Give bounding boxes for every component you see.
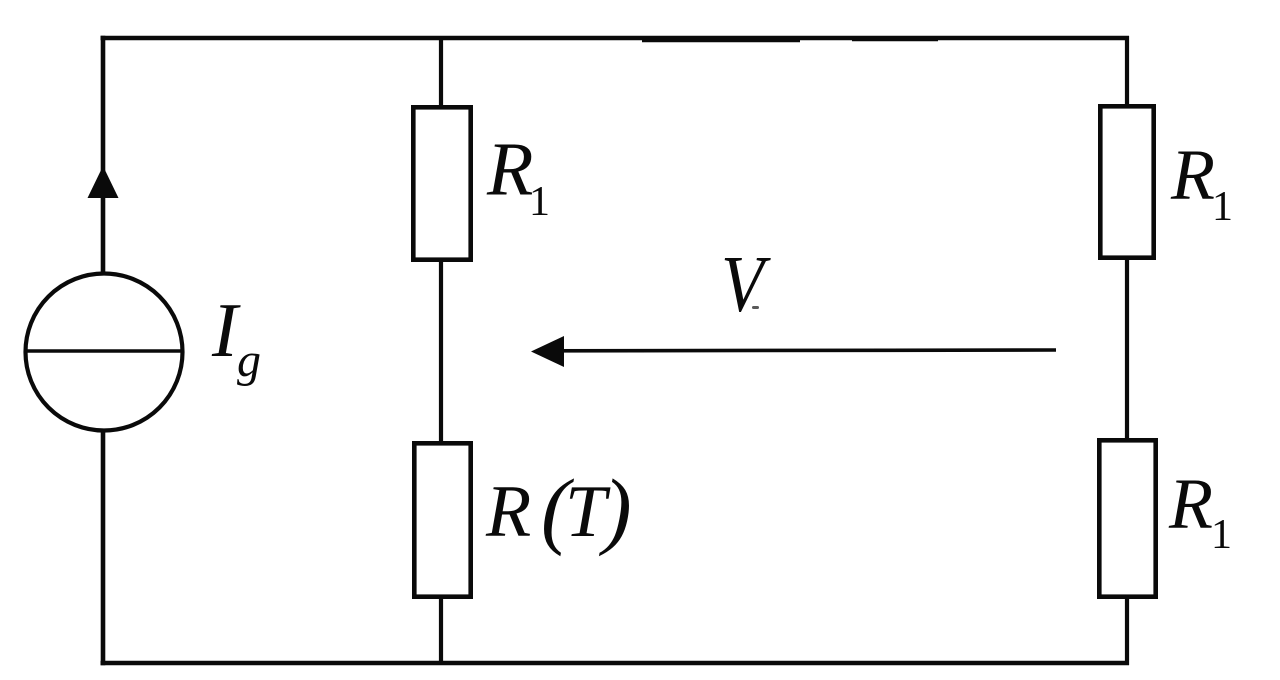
wire: middle branch bottom segment: [439, 599, 443, 665]
wire: middle branch mid segment: [439, 262, 443, 443]
svg-text:R: R: [486, 128, 533, 212]
svg-text:1: 1: [1212, 184, 1233, 230]
label Ig: [211, 287, 261, 387]
wire: left branch lower segment: [101, 431, 106, 666]
wire: left branch upper segment: [101, 36, 106, 273]
wire: top horizontal bus: [101, 36, 1130, 41]
resistor R(T) body: [414, 443, 470, 596]
voltage arrow V shaft: [556, 348, 1056, 352]
scan artifact: speck below V label: [752, 306, 759, 309]
current source Ig diameter line: [26, 349, 182, 353]
svg-text:g: g: [237, 334, 261, 387]
wire: middle branch top segment: [439, 36, 443, 107]
svg-text:1: 1: [529, 179, 550, 225]
current direction arrowhead on left wire: [88, 166, 119, 198]
current source Ig circle: [26, 274, 183, 431]
svg-text:V: V: [721, 241, 771, 329]
wire: right branch top segment: [1125, 36, 1129, 106]
scan artifact: slight thickening of top wire: [642, 40, 800, 42]
svg-text:R: R: [485, 471, 531, 553]
label R1 (right top): [1170, 135, 1233, 231]
label R1 (right bottom): [1168, 464, 1232, 559]
voltage arrowhead pointing left: [531, 336, 564, 367]
svg-text:): ): [598, 461, 632, 557]
resistor R1 (right bottom) body: [1099, 440, 1155, 596]
resistor R1 (middle top) body: [413, 107, 470, 259]
wire: bottom horizontal bus: [101, 661, 1130, 666]
label R(T): [485, 461, 632, 557]
svg-text:R: R: [1170, 135, 1215, 215]
resistor R1 (right top) body: [1100, 106, 1153, 257]
wire: right branch bottom segment: [1125, 599, 1129, 665]
wire: right branch mid segment: [1125, 260, 1129, 440]
label R1 (middle): [486, 128, 550, 226]
svg-text:R: R: [1168, 464, 1213, 544]
svg-text:1: 1: [1211, 512, 1232, 558]
